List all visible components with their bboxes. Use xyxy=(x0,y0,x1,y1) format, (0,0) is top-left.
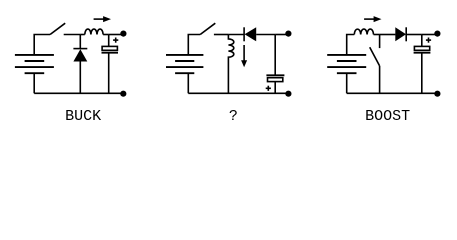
inductor L1 xyxy=(85,29,103,34)
output terminal dot (-) circuit 2 xyxy=(285,91,291,97)
current arrow I1 xyxy=(94,16,111,22)
capacitor C3 (polarized, + up) xyxy=(414,35,431,94)
inductor L2 (vertical) xyxy=(228,35,233,94)
wire switch S2 contact to inductor L2 node xyxy=(214,34,229,36)
plus polarity label C3 xyxy=(426,38,431,43)
wire battery B1 - terminal down to return rail xyxy=(33,73,35,93)
wire inductor L2 node to diode D2 xyxy=(228,34,244,36)
svg-text:?: ? xyxy=(229,108,238,125)
wire diode D3 to capacitor C3 node xyxy=(406,34,422,36)
capacitor C2 (polarized, + down) xyxy=(266,35,284,94)
output terminal dot (-) circuit 3 xyxy=(434,91,440,97)
wire battery B1 + terminal up to switch S1 xyxy=(34,35,50,55)
wire inductor L1 to capacitor C1 node xyxy=(103,34,109,36)
wire battery B3 - terminal down to return rail xyxy=(346,73,348,93)
output terminal dot (-) circuit 1 xyxy=(120,91,126,97)
wire battery B2 - terminal down to return rail xyxy=(187,73,189,93)
output terminal dot (+) circuit 2 xyxy=(285,30,291,36)
wire return rail circuit 2 xyxy=(188,92,288,94)
current arrow I3 xyxy=(364,16,381,22)
wire inductor L3 to switch S3 node xyxy=(374,34,380,36)
capacitor C1 (polarized, + up) xyxy=(102,35,119,94)
wire diode D2 to capacitor C2 node xyxy=(256,34,275,36)
wire battery B2 + terminal up to switch S2 xyxy=(188,35,200,55)
current arrow I2 (down) xyxy=(241,45,247,67)
output terminal dot (+) circuit 3 xyxy=(434,30,440,36)
switch S1 blade (open) xyxy=(50,23,65,34)
diode D2 (cathode left) xyxy=(244,27,256,41)
wire return rail circuit 1 xyxy=(34,92,123,94)
wire switch S1 contact to diode D1 node xyxy=(64,34,81,36)
wire return rail circuit 3 xyxy=(347,92,438,94)
wire diode D1 node to inductor L1 xyxy=(80,34,85,36)
wire capacitor C3 node to output terminal xyxy=(422,34,438,36)
diode D3 (cathode right) xyxy=(395,27,406,41)
svg-text:BOOST: BOOST xyxy=(365,108,410,125)
inductor L3 xyxy=(354,29,373,34)
battery B2 xyxy=(166,55,203,73)
wire switch S3 node to diode D3 xyxy=(380,34,396,36)
diode D1 (freewheel, cathode up) xyxy=(73,35,87,94)
switch S3 (vertical, open) xyxy=(370,35,380,94)
svg-text:BUCK: BUCK xyxy=(65,108,101,125)
wire battery B3 + terminal up to inductor L3 xyxy=(347,35,355,55)
wire capacitor C1 node to output terminal xyxy=(109,34,124,36)
plus polarity label C2 xyxy=(266,86,271,91)
wire capacitor C2 node to output terminal xyxy=(275,34,288,36)
plus polarity label C1 xyxy=(113,38,118,43)
output terminal dot (+) circuit 1 xyxy=(120,30,126,36)
switch S2 blade (open) xyxy=(200,23,215,34)
battery B3 xyxy=(327,55,366,73)
battery B1 xyxy=(15,55,54,73)
